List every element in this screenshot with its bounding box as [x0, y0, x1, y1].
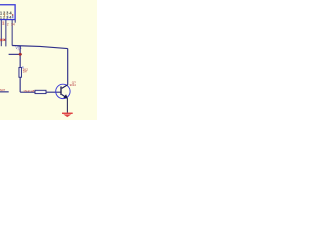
pin 2 wire [5, 20, 7, 47]
svg-text:1234: 1234 [0, 15, 12, 19]
no-ERC marker on pin2 wire [3, 39, 5, 41]
vertical wire to resistor R1 [19, 46, 21, 68]
svg-text:1W: 1W [23, 70, 27, 74]
svg-text:34: 34 [11, 23, 15, 27]
pin number 1 halo [2, 21, 4, 25]
sheet background [0, 0, 97, 120]
connector J1 text colour noise [4, 13, 5, 16]
stub wire into junction [9, 53, 21, 55]
svg-text:N4?: N4? [0, 88, 6, 92]
Q1 emitter lead [62, 95, 68, 99]
wire through resistor R1 down to base corner [19, 67, 21, 92]
svg-text:1N4148: 1N4148 [23, 89, 35, 93]
Q1 base bar [60, 86, 61, 95]
connector J1 body [0, 5, 15, 20]
left dangling wire [0, 91, 9, 93]
no-ERC marker on pin1 wire [0, 39, 2, 41]
transistor Q1 circle [56, 84, 70, 98]
resistor R2 body horizontal [35, 90, 46, 93]
base wire from corner to transistor [20, 91, 61, 93]
junction dot [19, 53, 22, 56]
emitter wire [66, 98, 68, 113]
slightly sloped wire from pin3 to collector drop [12, 46, 68, 49]
collector wire [67, 49, 69, 85]
svg-text:9014: 9014 [70, 83, 77, 87]
Q1 emitter arrow [63, 94, 68, 98]
ground triangle [63, 114, 71, 117]
pin 1 wire [0, 20, 2, 46]
net label smudge [18, 49, 21, 50]
ground bar [62, 113, 73, 114]
resistor R1 body [19, 67, 22, 77]
pin 3 wire [11, 20, 13, 46]
connector J1 red tick inside [12, 14, 13, 16]
Q1 collector lead [62, 85, 68, 89]
svg-text:2: 2 [7, 23, 9, 27]
pin 4 stub [14, 20, 16, 23]
